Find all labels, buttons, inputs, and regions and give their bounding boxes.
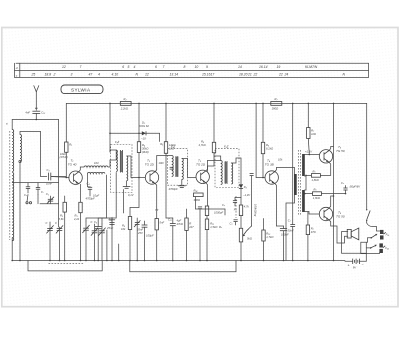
svg-text:12: 12 (62, 65, 66, 69)
wire osc section drop (106, 230, 108, 261)
ferrite coil L1 (6, 123, 14, 172)
svg-text:TG 2D: TG 2D (145, 163, 155, 167)
resistor R10 detector load (234, 205, 250, 216)
TR1 primary winding (294, 174, 297, 195)
IF transformer F1 box (111, 145, 132, 193)
oscillator coil L3 primary (84, 166, 108, 167)
wire speaker feed from T6 (334, 226, 338, 243)
capacitor C8 trimmer style (134, 218, 143, 261)
svg-text:10μF: 10μF (93, 194, 99, 198)
svg-text:TG 50: TG 50 (336, 214, 345, 218)
capacitor C1 antenna coupling (25, 111, 45, 120)
svg-text:~10·: ~10· (141, 137, 147, 141)
IFT2 secondary winding (182, 159, 184, 180)
svg-text:50nF: 50nF (288, 229, 294, 233)
wire gang feed (86, 218, 102, 224)
capacitor C9a electrolytic (142, 221, 154, 261)
wire T6 base feed (305, 212, 320, 215)
wire if ground drop (118, 244, 120, 261)
svg-text:1,5kΩ: 1,5kΩ (210, 225, 217, 229)
tuning gang capacitor CV1a (46, 221, 54, 261)
wire trimmer rail (40, 203, 59, 205)
wire input rail (12, 119, 58, 121)
wire speaker return (342, 252, 367, 254)
wire rail drop R15 (307, 103, 309, 127)
svg-text:C₁: C₁ (46, 192, 49, 196)
svg-text:12: 12 (145, 73, 149, 77)
battery B1 9V (345, 253, 366, 269)
svg-text:C: C (91, 220, 93, 224)
wire R8 to T3 base (208, 153, 215, 172)
wire band-switch rail (12, 182, 58, 184)
wire T6 emitter down (329, 220, 334, 226)
IF transformer F3 box (215, 149, 239, 188)
svg-text:1,8kΩ: 1,8kΩ (313, 196, 320, 200)
IFT3 primary winding (221, 161, 223, 185)
wire TR1 primary bottom (286, 195, 295, 261)
transistor T4 (265, 158, 283, 185)
resistor R15 (307, 128, 316, 155)
svg-text:2k7: 2k7 (188, 225, 194, 229)
wire IFT1 primary drop junction (98, 216, 116, 218)
svg-text:4nF: 4nF (25, 111, 30, 115)
wire rail left corner drop (65, 103, 67, 142)
svg-text:C₁₁: C₁₁ (168, 218, 172, 222)
svg-text:100μF: 100μF (281, 233, 289, 237)
wire T2 collector up (155, 156, 172, 172)
wire jack link (361, 238, 380, 254)
svg-text:0,1V: 0,1V (128, 193, 134, 197)
svg-text:2,2k: 2,2k (73, 217, 80, 221)
wire top supply rail (66, 102, 366, 104)
IF transformer F2 box (168, 149, 188, 186)
dial scale frame (15, 63, 369, 77)
svg-text:390Ω: 390Ω (272, 106, 279, 110)
svg-text:100kΩ/log: 100kΩ/log (254, 204, 258, 217)
svg-text:TŻ: TŻ (155, 208, 159, 212)
node rail junction R5 (165, 103, 167, 105)
capacitor C11a (166, 218, 183, 261)
wire R1 to T1 base (66, 152, 69, 177)
IFT1 primary winding (116, 150, 117, 172)
svg-text:R₉: R₉ (266, 143, 269, 147)
diode D2 detector (239, 184, 247, 189)
svg-text:5: 5 (128, 65, 130, 69)
wire speaker top lead (342, 232, 348, 254)
svg-text:5,6k: 5,6k (59, 217, 65, 221)
svg-text:10k: 10k (278, 158, 283, 162)
trimmer capacitor Ct1 (46, 192, 54, 204)
capacitor C6 inside F2 (169, 167, 178, 191)
svg-text:1,7kΩ: 1,7kΩ (266, 235, 273, 239)
wire T2 emitter down (155, 183, 157, 218)
svg-text:d: d (16, 66, 18, 70)
wire rail drop T4 base (255, 103, 263, 178)
svg-text:2,2kΩ: 2,2kΩ (120, 106, 128, 110)
svg-text:F₁Ż: F₁Ż (115, 140, 119, 144)
capacitor C13 (288, 103, 296, 261)
resistor R2 vertical (59, 196, 67, 261)
oscillator coil L3 secondary (88, 172, 105, 173)
node rail junction R15 (308, 103, 310, 105)
IFT1 secondary winding (127, 156, 128, 181)
svg-text:R₂: R₂ (124, 97, 127, 101)
svg-text:1000pF: 1000pF (214, 211, 223, 215)
node collector junction (333, 195, 335, 197)
svg-text:10: 10 (195, 65, 199, 69)
svg-text:103: 103 (94, 161, 99, 165)
wire jack2 contact (366, 247, 370, 249)
resistor R7b (185, 209, 194, 261)
svg-text:10Ω: 10Ω (159, 161, 164, 165)
wire AGC dashed (235, 196, 237, 218)
annotation smudges (94, 161, 250, 229)
capacitor C12 emitter bypass (276, 226, 289, 261)
capacitor padder 2 (36, 183, 44, 195)
wire under-bus loop 1 (28, 261, 102, 271)
svg-text:−: − (362, 263, 364, 267)
wire R4 to T2 base node (138, 153, 140, 178)
IFT1 core (120, 150, 123, 173)
wire tap to base cap (41, 132, 47, 177)
transistor T5 (305, 145, 345, 163)
node T5 base feed (309, 154, 311, 156)
transistor T2 (145, 159, 164, 185)
capacitor C9 detector filter (233, 198, 241, 207)
svg-text:7: 7 (80, 65, 82, 69)
ferrite coil L2 (20, 135, 22, 162)
svg-text:390Ω: 390Ω (194, 198, 201, 202)
svg-text:R₁₄: R₁₄ (194, 189, 198, 193)
svg-text:25V: 25V (137, 231, 143, 235)
wire L2 bottom to bus (19, 163, 21, 261)
wire detector av line (196, 209, 226, 215)
svg-text:7: 7 (163, 65, 165, 69)
svg-text:2: 2 (53, 73, 56, 77)
capacitor C4 osc (86, 182, 95, 201)
resistor R4 (137, 142, 148, 154)
svg-text:−1,3V: −1,3V (243, 193, 250, 197)
capacitor C10 pot coupling (250, 174, 254, 226)
svg-text:9: 9 (206, 65, 208, 69)
capacitor C3 base coupling (46, 168, 66, 186)
wire R5 down (165, 153, 167, 218)
svg-text:47Ω: 47Ω (311, 230, 316, 234)
transistor T6 (319, 207, 345, 220)
wire left drop to coil (11, 120, 13, 130)
IFT2 core (175, 156, 178, 177)
wire T5 collector (329, 147, 334, 151)
wire L3 primary to IFT1 (108, 160, 110, 167)
wire right vertical from rail (333, 103, 335, 260)
svg-text:15.16: 15.16 (202, 73, 211, 77)
svg-text:1,8kΩ: 1,8kΩ (312, 178, 319, 182)
transistor T3 (196, 159, 209, 184)
capacitor C5 electrolytic (93, 194, 102, 261)
wire rail drop R5 (165, 103, 167, 141)
svg-text:8: 8 (184, 65, 186, 69)
transistor T1 (68, 159, 83, 185)
capacitor C15 electrolytic 50uF (341, 181, 360, 194)
svg-text:18.8: 18.8 (45, 73, 52, 77)
jack contact arrow 1 (370, 234, 377, 239)
svg-text:C₁₂: C₁₂ (41, 111, 45, 115)
svg-text:100μF: 100μF (146, 234, 154, 238)
svg-text:F₂Ż: F₂Ż (171, 145, 176, 149)
svg-text:TG 2D: TG 2D (196, 163, 206, 167)
svg-text:TG 50: TG 50 (336, 149, 345, 153)
svg-text:18.20: 18.20 (239, 73, 248, 77)
wire under-bus loop 2 (130, 261, 236, 272)
SYLWIA nameplate (61, 85, 103, 94)
svg-text:17: 17 (211, 73, 215, 77)
wire IFT2 secondary to T3 base (182, 159, 196, 178)
wire IFT1 primary top (110, 150, 116, 160)
svg-text:4700pF: 4700pF (169, 187, 178, 191)
resistor R12 (261, 142, 273, 153)
wire speaker bottom lead (337, 236, 348, 243)
svg-text:10nF: 10nF (46, 181, 52, 185)
svg-text:6: 6 (122, 65, 124, 69)
wire IFT3 secondary to detector (231, 158, 241, 184)
node base junction T1 (66, 177, 68, 179)
scale upper numbers (62, 65, 318, 69)
ground IFT2 (178, 180, 186, 188)
svg-text:(9kΩ): (9kΩ) (142, 150, 149, 154)
node terminal pair (26, 195, 38, 204)
wire IFT1 secondary top to T2 base (127, 156, 145, 178)
node rail junction right (333, 103, 335, 105)
diode D1 AGC (109, 121, 159, 142)
wire T4 emitter down (275, 183, 277, 226)
node L2 bottom terminal (19, 160, 21, 162)
wire T5 emitter (320, 162, 330, 175)
svg-text:22: 22 (278, 73, 283, 77)
capacitor C7 (106, 218, 115, 261)
wire rail drop R12 (262, 103, 264, 142)
wire battery minus riser (365, 242, 367, 253)
driver transformer TR1 core (298, 150, 300, 215)
svg-text:4,7kΩ: 4,7kΩ (199, 143, 206, 147)
capacitor C8a (198, 207, 202, 261)
svg-text:10k: 10k (121, 227, 126, 231)
resistor R16 (305, 169, 320, 182)
ferrite coil L1 lower section (10, 131, 14, 241)
svg-text:13.14: 13.14 (170, 73, 179, 77)
wire T6 collector (329, 196, 334, 208)
svg-text:4,7k: 4,7k (244, 205, 250, 209)
node rail junction R12 (262, 103, 264, 105)
svg-text:21: 21 (247, 73, 252, 77)
svg-text:5nF: 5nF (160, 221, 165, 225)
wire tuning link dashed (49, 263, 85, 265)
svg-text:R₁: R₁ (69, 143, 72, 147)
wire T3 emitter down (206, 183, 208, 206)
node T4 base junction (262, 177, 264, 179)
wire bottom bus (12, 260, 345, 262)
resistor R7 rail series (271, 97, 282, 110)
wire oscillator drop (58, 120, 60, 228)
jack F2 lower (379, 243, 388, 253)
svg-text:DOG 62: DOG 62 (139, 124, 149, 128)
wire osc coil tap drop (102, 175, 107, 218)
wire rail drop R4 (138, 103, 140, 141)
switch S1 (366, 103, 370, 223)
wire T1 collector up (79, 167, 84, 172)
svg-text:4.10: 4.10 (112, 73, 119, 77)
wire IFT3 primary top feed (214, 156, 221, 161)
resistor R6 (121, 208, 132, 261)
resistor R18 (306, 212, 316, 261)
svg-text:C: C (55, 221, 57, 225)
resistor R11 emitter T3 (205, 219, 217, 261)
svg-text:22: 22 (253, 73, 258, 77)
svg-text:F₁₄: F₁₄ (385, 246, 389, 250)
node rail junction IFT1 (109, 103, 111, 105)
node antenna junction (36, 119, 38, 121)
wire rail drop R8 (213, 103, 215, 142)
IFT3 secondary winding (231, 163, 233, 184)
svg-text:R₄: R₄ (142, 143, 145, 147)
svg-text:↓50μF/6V: ↓50μF/6V (349, 185, 361, 189)
IFT2 primary winding (172, 156, 174, 177)
tuning gang capacitor CV2b (91, 220, 99, 260)
ground T1 stage (109, 190, 124, 227)
resistor R8 (199, 140, 216, 153)
resistor R9a av (205, 206, 208, 219)
svg-text:4: 4 (134, 65, 136, 69)
TR1 secondary winding lower (302, 190, 305, 212)
resistor R13 emitter T4 (262, 219, 274, 261)
wire detector down (240, 188, 242, 205)
wire L3 secondary left drop (87, 174, 89, 187)
node rail junction R8 (213, 103, 215, 105)
svg-text:SYLWIA: SYLWIA (71, 88, 91, 93)
svg-text:+: + (348, 264, 350, 268)
resistor R14 390 (194, 189, 204, 210)
svg-text:F₃Ż: F₃Ż (224, 145, 229, 149)
scale lower numbers (31, 73, 346, 77)
jack contact arrow 2 (370, 245, 377, 249)
svg-text:6: 6 (155, 65, 157, 69)
speaker (347, 228, 359, 240)
svg-text:16.14: 16.14 (259, 65, 268, 69)
node rail junction R4 (138, 103, 140, 105)
wire secondary upper to T5 base (305, 154, 320, 156)
ground IFT1 (123, 181, 131, 188)
svg-text:9V: 9V (353, 265, 356, 269)
wire T4 collector to TR1 (275, 168, 295, 175)
svg-text:D₁: D₁ (142, 121, 145, 125)
trimmer capacitor Ct3 (98, 224, 105, 261)
svg-text:47kΩ: 47kΩ (177, 222, 183, 226)
svg-text:14: 14 (238, 65, 242, 69)
wire switch to jack1 (367, 223, 380, 231)
IFT3 core (225, 161, 228, 184)
svg-text:×1,1V: ×1,1V (305, 150, 312, 154)
svg-text:TG 3B: TG 3B (265, 163, 274, 167)
wire IFT1 primary bottom drop (115, 173, 117, 217)
tuning gang capacitor CV2a (82, 221, 89, 261)
wire secondary junction mid (305, 176, 307, 190)
antenna (34, 86, 39, 111)
svg-text:25nF: 25nF (106, 226, 113, 230)
svg-text:C₃: C₃ (47, 168, 50, 172)
wire L1 bottom to bus (11, 238, 13, 261)
tuning gang capacitor CV1b (55, 221, 63, 261)
node T2 base (138, 177, 140, 179)
wire agc to T2 base (130, 178, 139, 208)
wire L2 top tap (20, 132, 41, 135)
wire rail drop IFT1 (109, 103, 111, 152)
svg-text:TG 40: TG 40 (68, 163, 77, 167)
resistor R7a emitter T2 (155, 219, 164, 261)
svg-text:4: 4 (98, 73, 100, 77)
svg-text:3: 3 (71, 73, 73, 77)
svg-text:47: 47 (89, 73, 93, 77)
svg-text:1kΩ: 1kΩ (311, 132, 316, 136)
svg-text:8,2kΩ: 8,2kΩ (266, 146, 273, 150)
svg-text:C₄: C₄ (87, 182, 90, 186)
svg-text:24: 24 (284, 73, 289, 77)
wire T3 collector (206, 161, 221, 172)
TR1 secondary winding upper (302, 154, 305, 176)
svg-text:C: C (46, 221, 48, 225)
bus junction dots (11, 260, 334, 262)
svg-text:25: 25 (31, 73, 36, 77)
resistor R2a rail series (120, 97, 131, 110)
svg-text:5kΩ: 5kΩ (247, 237, 252, 241)
svg-text:D₂: D₂ (244, 185, 247, 189)
svg-text:19: 19 (277, 65, 281, 69)
potentiometer P1 volume (239, 204, 257, 261)
capacitor padder 1 (24, 183, 30, 197)
resistor R1 (60, 142, 73, 159)
jack F1 upper (380, 230, 390, 240)
resistor R3 vertical (73, 184, 82, 260)
svg-text:KLM7/N: KLM7/N (305, 65, 318, 69)
resistor R17 (304, 188, 346, 201)
resistor R5 (160, 142, 175, 154)
wire R12 to T4 base (263, 154, 265, 178)
capacitor C10 coupling to T4 (230, 220, 252, 231)
